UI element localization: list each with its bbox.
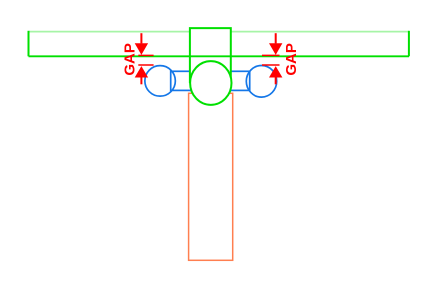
svg-text:GAP: GAP bbox=[122, 43, 139, 76]
svg-text:GAP: GAP bbox=[283, 43, 300, 76]
